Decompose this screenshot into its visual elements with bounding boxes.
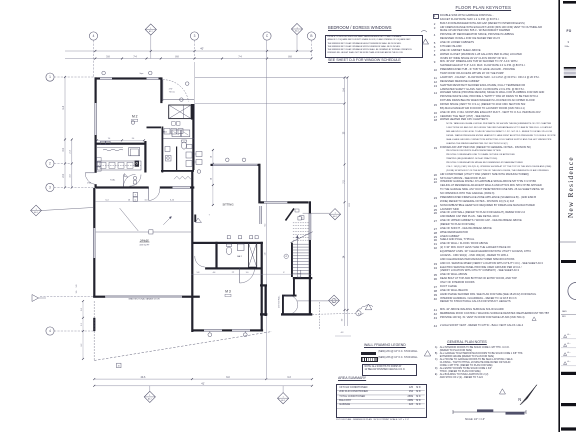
- svg-text:7-4: 7-4: [238, 56, 242, 58]
- svg-text:10'6: 10'6: [349, 202, 351, 207]
- svg-text:3-2: 3-2: [81, 323, 83, 326]
- svg-text:3-3: 3-3: [287, 376, 291, 379]
- svg-text:N: N: [518, 397, 521, 402]
- svg-text:3: 3: [194, 34, 196, 38]
- svg-text:2768: 2768: [87, 182, 91, 184]
- svg-text:16: 16: [128, 199, 131, 201]
- svg-text:27'6": 27'6": [169, 89, 173, 91]
- svg-text:8-8: 8-8: [288, 56, 292, 58]
- svg-text:8-2: 8-2: [264, 224, 266, 227]
- svg-text:7-4: 7-4: [108, 138, 111, 140]
- svg-text:M 3: M 3: [225, 290, 231, 294]
- svg-text:5-8: 5-8: [197, 272, 200, 274]
- svg-text:B: B: [310, 34, 312, 38]
- svg-text:A5.2: A5.2: [333, 215, 337, 218]
- svg-text:3-0: 3-0: [70, 174, 72, 178]
- svg-text:2'2: 2'2: [232, 272, 234, 274]
- svg-text:3-0: 3-0: [145, 199, 149, 201]
- svg-text:1-4: 1-4: [264, 253, 266, 256]
- svg-text:40': 40': [200, 47, 204, 51]
- svg-text:3-6: 3-6: [76, 291, 78, 294]
- svg-text:9-4: 9-4: [63, 105, 65, 109]
- svg-text:4'-0" HIGH WALL: 4'-0" HIGH WALL: [278, 296, 281, 308]
- svg-text:4-3: 4-3: [341, 332, 344, 334]
- svg-text:UP: UP: [285, 256, 287, 258]
- svg-text:26: 26: [118, 366, 120, 368]
- svg-text:Hope: Hope: [140, 73, 144, 75]
- svg-text:A5.2: A5.2: [34, 211, 38, 214]
- svg-text:14: 14: [211, 156, 213, 158]
- svg-text:7'6 D.D.: 7'6 D.D.: [169, 92, 176, 94]
- svg-text:6: 6: [135, 199, 136, 201]
- svg-text:9-0: 9-0: [226, 376, 230, 379]
- svg-text:7-4: 7-4: [133, 56, 137, 58]
- svg-text:4: 4: [49, 329, 51, 333]
- svg-text:8-8: 8-8: [175, 56, 179, 58]
- svg-text:6-4: 6-4: [106, 199, 110, 201]
- svg-text:41': 41': [201, 382, 205, 386]
- svg-text:BA 1: BA 1: [163, 131, 168, 134]
- svg-text:2-4: 2-4: [70, 150, 72, 154]
- svg-text:3: 3: [49, 186, 51, 190]
- svg-text:GEAR SECTIONAL GARAGE DOOR: GEAR SECTIONAL GARAGE DOOR: [128, 298, 160, 301]
- svg-text:2: 2: [49, 162, 51, 166]
- svg-text:6': 6': [283, 272, 285, 274]
- svg-text:4-4: 4-4: [213, 272, 216, 274]
- svg-text:BA 2: BA 2: [237, 255, 242, 258]
- svg-text:5-8: 5-8: [106, 56, 110, 58]
- svg-text:A5.2: A5.2: [295, 30, 299, 33]
- svg-text:4: 4: [93, 34, 95, 38]
- svg-text:3'0: 3'0: [342, 319, 344, 321]
- svg-text:M 2: M 2: [132, 115, 138, 119]
- svg-text:1-0: 1-0: [246, 272, 249, 274]
- svg-text:SITTING: SITTING: [222, 203, 233, 207]
- svg-text:2-4: 2-4: [63, 174, 65, 178]
- svg-text:24: 24: [211, 178, 213, 180]
- svg-text:20-6: 20-6: [141, 376, 146, 379]
- svg-text:3-0: 3-0: [81, 308, 83, 311]
- svg-text:6-10: 6-10: [170, 199, 175, 201]
- svg-text:6-2: 6-2: [81, 344, 83, 347]
- svg-text:433 SQ FT: 433 SQ FT: [139, 245, 150, 247]
- svg-text:1: 1: [49, 75, 51, 79]
- svg-text:3-4: 3-4: [63, 148, 65, 152]
- svg-text:K/CAL: K/CAL: [110, 179, 115, 182]
- svg-text:A5.2: A5.2: [149, 30, 153, 33]
- svg-text:5-8: 5-8: [76, 285, 78, 288]
- svg-text:7: 7: [209, 215, 210, 217]
- svg-text:2-4: 2-4: [132, 138, 135, 140]
- svg-text:A5.2: A5.2: [148, 398, 152, 401]
- svg-text:A5.2: A5.2: [281, 399, 285, 402]
